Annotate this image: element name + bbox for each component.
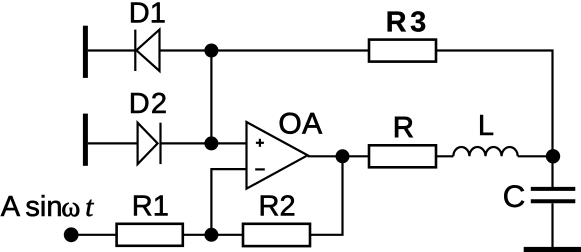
input terminal dot [64,227,79,242]
wire node D to R2 [211,234,243,236]
junction node D [204,228,218,242]
svg-text:R: R [393,112,414,144]
svg-text:OA: OA [278,107,322,140]
svg-text:A: A [1,191,21,223]
op-amp U1 [247,122,308,189]
wire D1 to node A [160,49,212,51]
resistor R [369,145,436,167]
ground bar [524,247,581,252]
wire op-amp output [308,155,369,157]
resistor R3 [369,40,436,62]
wire capacitor to ground bar [551,203,553,247]
diode D2 [138,123,161,164]
junction node OUT [336,149,350,163]
capacitor C [531,189,576,201]
svg-text:R2: R2 [259,190,296,222]
svg-text:R1: R1 [132,190,169,222]
svg-text:L: L [478,110,494,142]
svg-text:D1: D1 [129,0,166,29]
terminal bar T1 [83,26,88,78]
svg-text:D2: D2 [129,88,168,120]
wire feedback vertical [310,156,343,235]
junction node B [204,136,218,150]
diode D1 [135,30,159,71]
terminal bar T2 [83,114,88,166]
wire node A to R3 [211,49,369,51]
wire T2 to D2 [88,142,138,144]
svg-text:sin: sin [25,191,62,223]
wire R1 to node D [183,234,212,236]
svg-text:C: C [503,178,526,214]
svg-text:t: t [85,191,94,223]
wire node B to op-amp plus input [211,142,246,144]
wire R3 to right corner [436,51,553,188]
wire T1 to D1 [88,49,136,51]
inductor L [453,147,517,156]
resistor R1 [117,224,183,246]
resistor R2 [243,224,310,246]
wire R to L [436,155,453,157]
junction node A [204,44,218,58]
wire D2 to node B [161,142,212,144]
wire L to node C [518,155,553,157]
wire node A to node B vertical [210,51,212,144]
svg-text:ω: ω [61,191,80,223]
svg-text:R3: R3 [386,7,430,39]
wire input to R1 [71,234,116,236]
wire minus input feedback [211,169,246,235]
junction node N2 [546,149,560,163]
